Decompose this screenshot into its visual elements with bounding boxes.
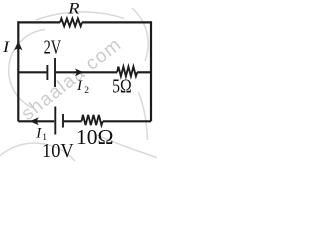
value label 10V: [42, 140, 74, 162]
wire top-right segment: [82, 21, 151, 23]
value label 10 ohm: [76, 125, 113, 149]
current arrow I1: [30, 117, 39, 125]
value label R: [67, 0, 80, 17]
svg-text:2: 2: [84, 86, 89, 96]
svg-text:10Ω: 10Ω: [76, 125, 113, 149]
wire left rail: [17, 21, 19, 121]
wire top-left segment: [18, 21, 60, 23]
wire bottom-right segment: [103, 120, 151, 122]
svg-text:5Ω: 5Ω: [112, 74, 132, 96]
svg-text:I: I: [76, 78, 83, 94]
wire bottom-left segment: [18, 120, 54, 122]
svg-text:10V: 10V: [42, 140, 74, 162]
battery 2V short plate: [46, 65, 48, 80]
value label 5 ohm: [112, 74, 132, 96]
watermark arcs: [0, 8, 157, 161]
resistor 10 ohm (zigzag): [82, 115, 103, 125]
battery 10V short plate: [62, 114, 64, 128]
battery 2V long plate: [54, 58, 56, 87]
value label 2V: [44, 35, 62, 58]
svg-text:2V: 2V: [44, 35, 62, 58]
wire middle-far-right segment: [137, 71, 151, 73]
wire right rail: [150, 21, 152, 121]
wire middle-left segment: [18, 71, 46, 73]
battery 10V long plate: [54, 107, 56, 135]
svg-text:I: I: [35, 125, 42, 141]
current arrow I (up) on left rail: [14, 41, 22, 51]
wire middle-right segment: [56, 71, 117, 73]
svg-text:R: R: [67, 0, 80, 17]
current label I: [2, 38, 11, 56]
resistor 5 ohm (zigzag): [117, 67, 137, 77]
current arrow I2: [75, 69, 83, 77]
wire bottom-mid segment: [64, 120, 82, 122]
resistor R (zigzag): [60, 19, 82, 27]
